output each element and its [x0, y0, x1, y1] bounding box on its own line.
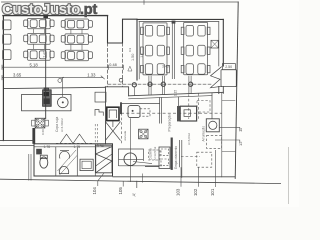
svg-text:2.50: 2.50: [225, 65, 232, 69]
wc divider 1: [55, 147, 57, 176]
trap base line: [119, 165, 163, 167]
wall chairs left 2: [3, 34, 11, 44]
group B connectors: [71, 29, 82, 50]
trap circle: [124, 153, 137, 166]
stairs: [96, 145, 112, 173]
wall cozinha right: [180, 140, 182, 178]
svg-text:A=13,5m2: A=13,5m2: [153, 146, 157, 160]
section marker blob: [43, 13, 48, 18]
posts dashed line: [108, 83, 212, 85]
grease trap bay: [119, 149, 144, 166]
bracket fixture: [95, 110, 103, 116]
closet box: [95, 92, 106, 102]
svg-text:101: 101: [210, 188, 215, 196]
wall chairs left 1: [3, 20, 11, 30]
fixture hot plate: [35, 118, 45, 128]
svg-text:0.48: 0.48: [109, 63, 116, 67]
corridor dashed leaders: [95, 124, 97, 145]
coffee machine: [43, 88, 52, 107]
group D side tabs: [181, 27, 210, 73]
wall kitchen top upper: [129, 92, 224, 96]
svg-text:5.18: 5.18: [30, 62, 39, 67]
leader to sink: [61, 78, 63, 97]
svg-text:Preparação: Preparação: [168, 114, 172, 132]
stove island: [180, 106, 196, 121]
worktable round: [128, 106, 140, 118]
svg-text:1.78: 1.78: [44, 145, 51, 149]
canopy dashed right: [122, 43, 124, 87]
corner sink wc1: [36, 149, 42, 155]
dashed cupboard: [207, 135, 222, 148]
svg-text:1.15: 1.15: [174, 90, 178, 96]
svg-text:105: 105: [118, 187, 123, 195]
trap dashed box: [149, 150, 161, 160]
table group B row 2: [61, 34, 92, 45]
table group A row 1: [24, 18, 54, 28]
toilet 2: [59, 166, 68, 173]
exterior landing: [221, 70, 236, 87]
svg-text:3.40: 3.40: [162, 65, 169, 69]
canopy dashed left: [107, 43, 109, 87]
wall right dining room 2 outer: [222, 19, 224, 66]
wall chairs left 3: [3, 50, 11, 60]
watermark CustoJusto.pt: [2, 2, 97, 18]
column symbol small: [119, 78, 123, 82]
wall top dining room 1: [3, 15, 108, 17]
section line vertical: [45, 13, 47, 119]
kitchen dashed divider: [189, 93, 199, 119]
terrace wall upper: [0, 140, 34, 142]
wall top dining room 2 outer: [137, 18, 223, 20]
dishwasher bold: [107, 107, 119, 120]
shelf triangle 1: [60, 134, 73, 143]
wall cozinha bottom: [145, 166, 159, 168]
table group D block: [184, 22, 208, 74]
dashed bench: [140, 109, 150, 116]
bottom section line and leaders: [0, 150, 281, 197]
svg-text:escada: escada: [123, 130, 127, 140]
leader 102: [197, 167, 199, 187]
small fixture x-square: [139, 129, 148, 139]
wc divider 3: [94, 144, 96, 176]
svg-text:3.65: 3.65: [13, 73, 22, 78]
svg-text:Empacotamento: Empacotamento: [174, 146, 178, 169]
svg-text:A=6,0m2: A=6,0m2: [187, 133, 191, 145]
wall left dining room 2: [136, 19, 138, 80]
svg-text:0.60: 0.60: [41, 129, 45, 135]
counter bar: [22, 95, 72, 111]
svg-text:Arrumação: Arrumação: [202, 126, 206, 142]
staff table: [159, 147, 170, 169]
dimension line 5.18: [2, 65, 123, 69]
leader 104: [98, 173, 104, 186]
sink circle bar: [58, 97, 69, 108]
svg-text:102: 102: [193, 188, 198, 196]
trap diagonal: [133, 162, 152, 164]
garden wall verticals: [29, 154, 31, 181]
group C side tabs: [141, 27, 170, 73]
wc2 hatch: [58, 150, 78, 175]
wall kitchen left: [105, 87, 107, 144]
group A connectors: [33, 29, 44, 50]
post 2: [148, 82, 152, 86]
bar step wall: [105, 87, 128, 96]
post risers: [134, 76, 191, 96]
terrace wall lower: [0, 145, 34, 147]
page fold line right: [288, 147, 290, 204]
post 3: [161, 82, 165, 86]
wall kitchen top lower: [129, 96, 212, 99]
dimension line 3.65 / 1.33: [2, 75, 105, 79]
door right swing: [211, 67, 222, 88]
svg-text:A': A': [132, 193, 137, 197]
wall right dining room 2 inner: [218, 22, 220, 66]
service block: [0, 118, 162, 182]
svg-text:103: 103: [176, 188, 181, 196]
site boundary top: [2, 1, 239, 3]
door label box 2.50: [222, 64, 235, 70]
group C chairs: [145, 25, 164, 74]
wall right outer lower: [235, 2, 238, 178]
tick small: [142, 174, 144, 183]
wash basin: [80, 159, 93, 170]
wall left exterior: [2, 16, 4, 141]
table group A row 3: [24, 49, 54, 60]
leader 105: [130, 118, 132, 182]
leader 103: [180, 167, 182, 187]
svg-text:0.9: 0.9: [128, 47, 132, 52]
table group C block: [143, 23, 167, 75]
wc block outer: [34, 144, 113, 176]
shelf triangle 2: [73, 134, 86, 143]
table group A row 2: [24, 33, 54, 44]
dashed lower cupboards: [197, 152, 212, 167]
wall piece dark: [32, 128, 35, 144]
group D chairs: [186, 25, 205, 74]
svg-text:12: 12: [238, 141, 243, 146]
svg-text:CustoJusto.pt: CustoJusto.pt: [2, 2, 97, 18]
stair corridor X: [105, 122, 120, 141]
sink kitchen: [206, 119, 219, 132]
svg-text:3.0: 3.0: [140, 53, 144, 58]
corridor dashed right: [121, 113, 123, 144]
svg-text:1.50: 1.50: [131, 54, 135, 61]
wall entrance recess: [108, 16, 138, 43]
bar front line: [4, 87, 105, 88]
switch symbol: [58, 79, 62, 83]
divider wall C/D: [172, 22, 174, 79]
svg-text:1.75: 1.75: [74, 145, 81, 149]
dashed box top right room: [197, 101, 210, 113]
svg-text:1.33: 1.33: [87, 73, 96, 78]
wall preparacao right dark: [177, 106, 180, 121]
wall right corridor: [221, 93, 223, 178]
section line A-A: [0, 179, 281, 183]
kitchen area: [95, 93, 243, 178]
post 4: [189, 82, 193, 86]
counter band line kitchen: [121, 102, 160, 104]
small triangle mark: [128, 66, 132, 71]
wall right dining below door: [219, 87, 224, 94]
svg-text:2.47: 2.47: [43, 51, 47, 57]
svg-text:Copa suja: Copa suja: [55, 117, 59, 132]
dining furniture: [3, 18, 210, 79]
wall preparacao left: [160, 97, 162, 123]
shelf triangles dashed line: [56, 142, 93, 144]
rotated room labels: [41, 47, 206, 169]
kitchen dashed axis: [121, 112, 222, 114]
svg-text:104: 104: [92, 187, 97, 195]
leader 11: [219, 127, 239, 130]
svg-text:A=4.60m2: A=4.60m2: [60, 118, 64, 132]
wc block top inner: [34, 146, 113, 148]
table group B row 3: [61, 50, 92, 61]
tick A': [136, 181, 138, 188]
wall piece dark cozinha: [171, 138, 173, 170]
svg-text:Cozinha: Cozinha: [149, 148, 153, 160]
leader 105: [122, 181, 124, 187]
toilet 1: [40, 157, 48, 168]
leader 12: [215, 140, 240, 144]
post 1: [132, 83, 136, 87]
wall top dining room 2 inner: [139, 21, 219, 23]
wc divider 2: [76, 147, 78, 176]
ac unit right wall: [211, 40, 218, 48]
wall left dining room 2 inner: [138, 22, 140, 79]
boundary tick: [143, 0, 145, 5]
bidet wc2: [59, 151, 69, 158]
trap axis line: [119, 158, 144, 160]
leader 101: [214, 150, 216, 187]
table group B row 1: [61, 19, 92, 29]
